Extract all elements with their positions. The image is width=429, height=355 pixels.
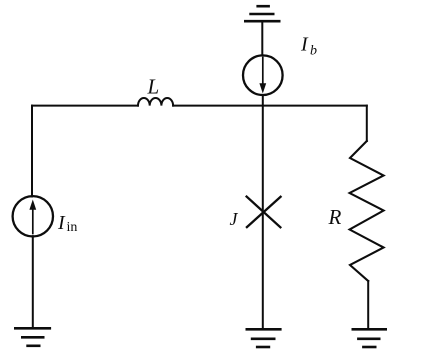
ground GND_left <box>15 328 50 346</box>
ground GND_right <box>353 329 386 347</box>
resistor R (zigzag) <box>350 141 384 281</box>
inductor L <box>138 98 173 106</box>
svg-text:J: J <box>230 209 239 229</box>
wire: top ground to bias source <box>261 21 263 55</box>
wire: resistor to right ground <box>367 281 369 329</box>
current source Iin (circle) <box>13 196 53 236</box>
svg-text:I: I <box>300 34 309 56</box>
wire: left branch vertical (to input source) <box>31 106 33 197</box>
svg-text:I: I <box>57 212 66 234</box>
svg-text:b: b <box>310 44 317 59</box>
ground GND_top (inverted, above bias source) <box>245 6 279 21</box>
wire: main horizontal rail left of inductor <box>32 105 138 107</box>
current source Ib (circle) <box>243 55 283 95</box>
wire: main horizontal rail right of inductor <box>173 105 367 107</box>
wire: bias source through main node and junction to middle ground <box>262 95 264 329</box>
Josephson junction J (X symbol) <box>247 197 281 228</box>
ground GND_mid <box>247 329 280 347</box>
svg-text:L: L <box>147 75 160 99</box>
wire: right branch drop from rail <box>366 106 368 141</box>
arrow of Iin (upward) <box>32 208 34 234</box>
wire: input source to left ground <box>32 236 34 328</box>
arrow of Ib (downward) <box>262 58 264 86</box>
svg-text:in: in <box>67 220 78 235</box>
svg-text:R: R <box>328 205 342 229</box>
